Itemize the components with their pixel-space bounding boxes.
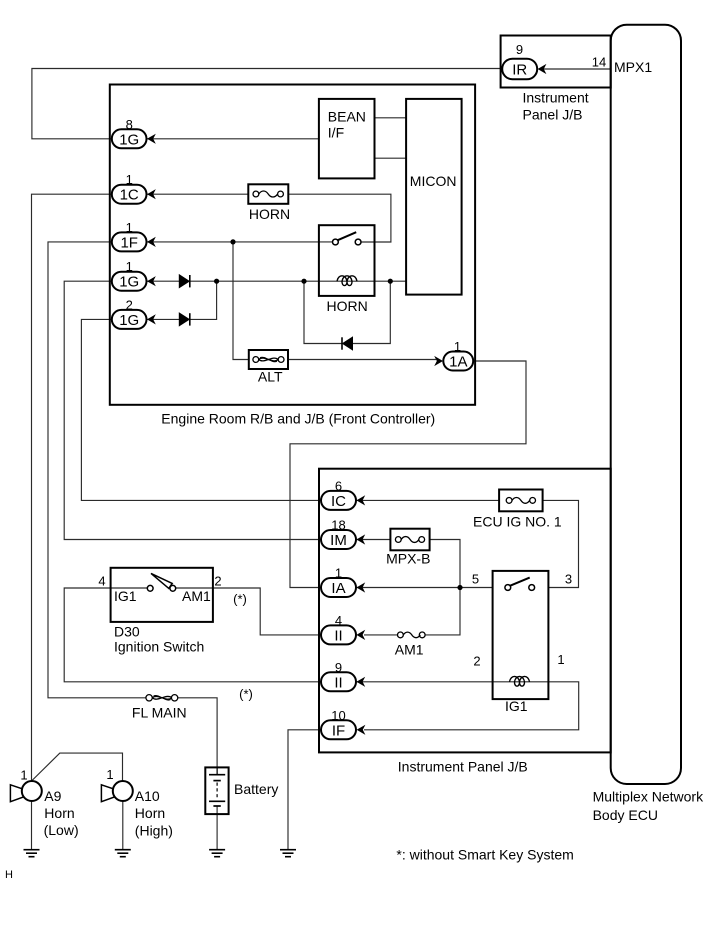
svg-text:IA: IA	[331, 580, 345, 597]
svg-text:A9: A9	[44, 788, 61, 804]
svg-text:1G: 1G	[119, 131, 139, 148]
svg-text:1: 1	[126, 220, 133, 235]
svg-text:MPX1: MPX1	[614, 59, 652, 75]
svg-text:18: 18	[331, 518, 345, 533]
svg-text:Panel J/B: Panel J/B	[523, 107, 583, 123]
svg-text:1F: 1F	[120, 234, 138, 251]
svg-text:HORN: HORN	[249, 206, 290, 222]
svg-text:AM1: AM1	[395, 642, 424, 658]
svg-text:1C: 1C	[120, 187, 139, 204]
svg-text:3: 3	[565, 572, 572, 587]
svg-text:Horn: Horn	[135, 805, 165, 821]
svg-text:1: 1	[20, 768, 27, 783]
svg-text:II: II	[334, 627, 342, 644]
svg-text:IM: IM	[330, 532, 347, 549]
svg-text:Multiplex Network: Multiplex Network	[593, 789, 704, 805]
svg-text:FL MAIN: FL MAIN	[132, 705, 187, 721]
svg-text:1A: 1A	[449, 354, 467, 371]
svg-text:1G: 1G	[119, 274, 139, 291]
svg-text:1: 1	[557, 652, 564, 667]
svg-text:9: 9	[335, 660, 342, 675]
svg-text:ALT: ALT	[258, 369, 283, 385]
svg-text:(High): (High)	[135, 823, 173, 839]
svg-text:Instrument Panel J/B: Instrument Panel J/B	[398, 759, 528, 775]
svg-text:Ignition Switch: Ignition Switch	[114, 639, 204, 655]
svg-text:MPX-B: MPX-B	[386, 551, 430, 567]
svg-text:*: without Smart Key System: *: without Smart Key System	[396, 847, 573, 863]
svg-text:ECU IG NO. 1: ECU IG NO. 1	[473, 514, 562, 530]
svg-text:4: 4	[98, 574, 105, 589]
svg-text:Engine Room R/B and J/B (Front: Engine Room R/B and J/B (Front Controlle…	[161, 411, 435, 427]
svg-text:2: 2	[473, 654, 480, 669]
svg-text:6: 6	[335, 478, 342, 493]
svg-text:1: 1	[126, 172, 133, 187]
svg-text:1: 1	[335, 566, 342, 581]
svg-text:(*): (*)	[239, 687, 253, 702]
svg-text:Horn: Horn	[44, 805, 74, 821]
svg-text:IC: IC	[331, 493, 346, 510]
svg-text:(Low): (Low)	[44, 822, 79, 838]
svg-text:IG1: IG1	[505, 698, 528, 714]
svg-text:14: 14	[592, 55, 606, 70]
svg-text:5: 5	[472, 572, 479, 587]
svg-text:MICON: MICON	[410, 173, 457, 189]
svg-text:IF: IF	[332, 722, 345, 739]
svg-text:H: H	[5, 869, 13, 881]
svg-text:4: 4	[335, 613, 342, 628]
svg-text:1: 1	[454, 339, 461, 354]
svg-text:HORN: HORN	[327, 298, 368, 314]
svg-text:AM1: AM1	[182, 588, 211, 604]
svg-text:IR: IR	[512, 62, 527, 79]
svg-text:D30: D30	[114, 624, 140, 640]
svg-text:Battery: Battery	[234, 781, 278, 797]
svg-text:1: 1	[126, 259, 133, 274]
svg-text:Instrument: Instrument	[523, 90, 589, 106]
svg-text:1: 1	[106, 767, 113, 782]
svg-text:10: 10	[331, 708, 345, 723]
svg-text:(*): (*)	[233, 592, 247, 607]
svg-text:8: 8	[126, 117, 133, 132]
svg-text:2: 2	[126, 297, 133, 312]
svg-text:9: 9	[516, 42, 523, 57]
svg-text:BEAN: BEAN	[328, 109, 366, 125]
svg-text:II: II	[334, 674, 342, 691]
svg-text:Body ECU: Body ECU	[593, 807, 658, 823]
svg-text:I/F: I/F	[328, 125, 344, 141]
svg-text:IG1: IG1	[114, 588, 137, 604]
svg-text:1G: 1G	[119, 312, 139, 329]
svg-text:2: 2	[214, 574, 221, 589]
svg-text:A10: A10	[135, 788, 160, 804]
